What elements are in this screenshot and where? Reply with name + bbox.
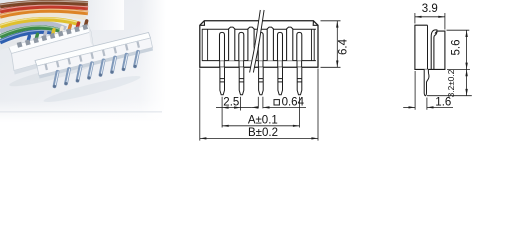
plug cavity holes bbox=[17, 24, 88, 48]
leg lines through bottom band bbox=[220, 61, 302, 68]
leg 4 bbox=[278, 67, 283, 95]
svg-text:0.64: 0.64 bbox=[282, 97, 305, 109]
break band (white) bbox=[250, 10, 265, 73]
contact pin profile bbox=[431, 30, 437, 70]
svg-text:2.5: 2.5 bbox=[223, 97, 239, 109]
svg-text:A±0.1: A±0.1 bbox=[248, 114, 278, 126]
photo background bbox=[0, 0, 166, 122]
leg 3 bbox=[259, 67, 264, 95]
pin 1 front bbox=[220, 32, 225, 60]
rib 1 bbox=[229, 27, 235, 61]
pin 2 front bbox=[239, 32, 244, 60]
svg-text:6.4: 6.4 bbox=[338, 38, 350, 55]
leg 2 bbox=[239, 67, 244, 95]
6.4 dimension bbox=[321, 21, 341, 68]
1.6 dimension bbox=[403, 71, 453, 110]
leg 5 bbox=[297, 67, 302, 95]
plug housing shadow bbox=[8, 60, 92, 90]
wire red bbox=[0, 6, 88, 11]
wire stubs at holes bbox=[20, 21, 87, 43]
svg-text:B±0.2: B±0.2 bbox=[248, 127, 278, 139]
0.64 dimension bbox=[251, 97, 306, 109]
wire white bbox=[0, 42, 19, 48]
B dimension bbox=[200, 69, 318, 141]
wire orange bbox=[0, 10, 88, 16]
pin 4 front bbox=[278, 32, 283, 60]
wire cream bbox=[0, 14, 86, 21]
bottom band inner line bbox=[202, 60, 316, 62]
wire gray bbox=[0, 23, 66, 31]
top-left corner chamfer bbox=[200, 21, 205, 26]
svg-text:3.9: 3.9 bbox=[422, 3, 438, 15]
side leg bbox=[424, 69, 429, 95]
header shadow bbox=[42, 72, 141, 106]
A dimension bbox=[222, 97, 299, 128]
plug housing body bbox=[9, 25, 95, 75]
rib 3 bbox=[267, 27, 273, 61]
header body outline front view bbox=[200, 21, 318, 68]
rib 4 bbox=[287, 27, 293, 61]
side view body bbox=[415, 25, 445, 69]
wire brown bbox=[0, 2, 88, 6]
svg-text:1.6: 1.6 bbox=[435, 96, 451, 108]
rib 2 bbox=[248, 27, 254, 61]
wire green bbox=[0, 27, 60, 36]
right wall lines bbox=[311, 29, 313, 60]
break line 1 bbox=[250, 10, 261, 73]
top-right corner chamfer bbox=[313, 21, 318, 26]
back wall bbox=[415, 25, 445, 69]
3.2±0.2 dimension bbox=[427, 69, 472, 95]
header body bbox=[35, 33, 153, 79]
5.6 dimension bbox=[447, 30, 471, 69]
header slots bbox=[46, 42, 139, 70]
wire blue bbox=[0, 31, 54, 42]
svg-text:3.2±0.2: 3.2±0.2 bbox=[446, 69, 456, 97]
break line 2 bbox=[253, 10, 264, 73]
pin 5 front bbox=[297, 32, 302, 60]
left wall lines bbox=[201, 29, 203, 60]
leg 1 bbox=[220, 67, 225, 95]
top band inner line bbox=[202, 28, 316, 30]
wire yellow bbox=[0, 19, 80, 26]
wire highlights bbox=[0, 1, 88, 41]
2.5 dimension bbox=[216, 97, 251, 128]
header pins bbox=[53, 52, 139, 88]
pin 3 front bbox=[258, 32, 263, 60]
svg-text:5.6: 5.6 bbox=[451, 40, 463, 56]
3.9 dimension bbox=[415, 13, 445, 30]
wire end fade bbox=[84, 0, 124, 30]
